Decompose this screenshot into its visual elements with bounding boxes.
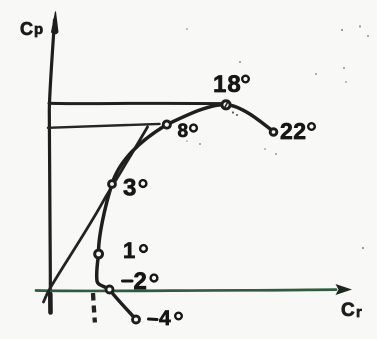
svg-text:1: 1 <box>123 238 135 263</box>
point -2 deg <box>106 286 113 293</box>
svg-text:8: 8 <box>178 121 189 142</box>
point 18 deg <box>222 101 230 109</box>
point 8 deg <box>163 121 170 128</box>
label 8 deg <box>178 121 197 142</box>
svg-text:22: 22 <box>280 118 307 144</box>
svg-text:2: 2 <box>134 268 147 295</box>
svg-text:3: 3 <box>123 175 136 202</box>
reference line 2 (to 8 deg) <box>48 124 160 128</box>
label 22 deg <box>280 118 315 144</box>
label 3 deg <box>123 175 146 202</box>
axis Cp (vertical) <box>49 12 58 313</box>
label Cr <box>341 300 362 321</box>
dashed dropline below axis <box>93 293 95 323</box>
svg-text:C: C <box>341 300 355 321</box>
axis Cr (horizontal, green) <box>36 290 336 291</box>
point -4 deg <box>133 316 140 323</box>
point 1 deg <box>95 250 103 258</box>
label 1 deg <box>123 238 147 263</box>
label -2 deg <box>123 268 158 295</box>
reference line 1 (to 18 deg) <box>49 102 222 105</box>
curve Cp vs Cr <box>97 105 274 320</box>
label 18 deg <box>213 71 249 98</box>
svg-text:p: p <box>34 21 43 38</box>
svg-text:4: 4 <box>159 307 171 330</box>
label -4 deg <box>149 307 182 330</box>
svg-text:C: C <box>20 19 33 39</box>
svg-text:r: r <box>356 304 362 321</box>
paper specks <box>186 25 369 249</box>
label Cp <box>20 19 43 39</box>
svg-text:18: 18 <box>213 71 242 98</box>
point 3 deg <box>109 181 116 188</box>
pen mark inside 18 deg point <box>225 103 228 108</box>
point 22 deg <box>270 129 277 136</box>
arrowhead Cr axis <box>336 284 353 295</box>
tangent line from origin <box>44 127 148 302</box>
